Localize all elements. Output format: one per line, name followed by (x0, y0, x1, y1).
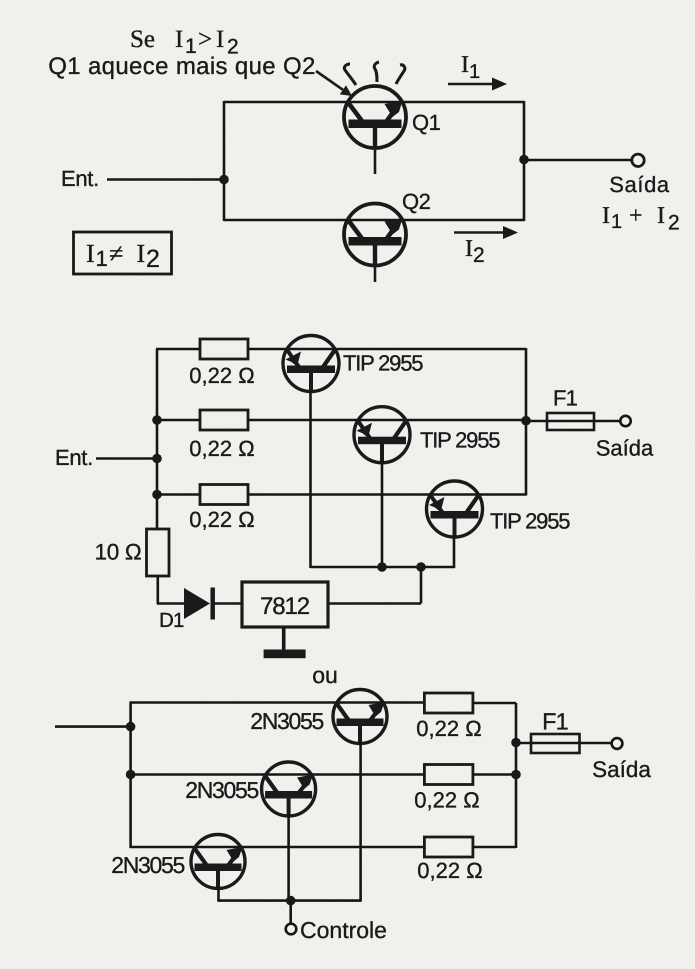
svg-text:0,22 Ω: 0,22 Ω (189, 436, 254, 461)
wire: to fuse (526, 420, 620, 423)
wire: TIP2 base lead down (381, 461, 384, 567)
wire: left bus vertical (156, 349, 159, 529)
svg-text:Q1 aquece mais que Q2: Q1 aquece mais que Q2 (48, 53, 316, 80)
wire: left side of loop (223, 101, 226, 221)
svg-text:TIP 2955: TIP 2955 (420, 428, 500, 453)
svg-text:TIP 2955: TIP 2955 (490, 509, 570, 534)
wire: row3 left (157, 493, 200, 496)
transistor 2N3055 #2 (262, 762, 316, 816)
wire: row2 left (157, 419, 200, 422)
junction: fuse tap (511, 738, 521, 748)
resistor R1 0,22 (200, 339, 248, 359)
svg-text:10 Ω: 10 Ω (95, 540, 142, 565)
current arrow I1 (448, 83, 495, 86)
wire: resistor to diode (157, 576, 160, 604)
svg-text:2N3055: 2N3055 (111, 852, 184, 878)
wire: row2 right (473, 773, 516, 776)
resistor R3 0,22 (200, 485, 248, 505)
svg-text:TIP 2955: TIP 2955 (343, 351, 423, 376)
transistor TIP 2955 #1 (283, 336, 339, 392)
wire: bottom side of loop (224, 219, 524, 222)
wire: row1 left (156, 348, 200, 351)
wire: row3 right (248, 493, 526, 496)
wire: Q2 emitter lead (374, 262, 377, 282)
junction: TIP2 base (377, 562, 387, 572)
svg-text:Saída: Saída (592, 757, 651, 782)
svg-text:D1: D1 (159, 609, 184, 632)
wire: input stub (96, 457, 157, 460)
transistor TIP 2955 #3 (427, 481, 483, 537)
wire: T1 base lead (359, 742, 362, 902)
pointer arrow from label to Q1 (316, 71, 343, 90)
wire: row1 right (248, 348, 526, 351)
ground (264, 650, 306, 659)
wire: left bus vertical (129, 703, 132, 849)
resistor R2 0,22 (200, 410, 248, 430)
junction: bus row3 (152, 490, 162, 500)
wire: Q1 emitter lead (374, 145, 377, 174)
svg-text:7812: 7812 (260, 593, 310, 620)
wire: diode to regulator (214, 602, 242, 605)
wire: row2 right (248, 419, 526, 422)
svg-text:Ent.: Ent. (61, 166, 99, 191)
wire: right collector vertical (525, 348, 528, 496)
junction: row2 tap (511, 770, 521, 780)
wire: regulator ground lead (282, 627, 286, 650)
junction: regulator tap (416, 562, 426, 572)
svg-text:0,22 Ω: 0,22 Ω (414, 788, 479, 813)
terminal: Saida output (632, 154, 644, 166)
wire: top side of loop (224, 101, 524, 104)
transistor Q1 (344, 86, 406, 148)
wire: to fuse (516, 742, 612, 745)
box: I1 != I2 (74, 232, 172, 274)
wire: controle drop (289, 901, 292, 924)
wire: TIP3 base lead down (453, 535, 456, 568)
wire: row3 right (473, 846, 516, 849)
wire: right vertical (515, 703, 518, 848)
terminal: Saida (620, 416, 630, 426)
terminal: Controle (286, 924, 297, 935)
svg-text:Q1: Q1 (412, 110, 441, 135)
wire: to output terminal (524, 159, 632, 162)
svg-text:Q2: Q2 (402, 189, 431, 214)
wire: T2 base lead (287, 814, 290, 902)
svg-text:0,22 Ω: 0,22 Ω (189, 507, 254, 532)
wire: right side of loop (523, 101, 526, 221)
wire: regulator to junction (420, 567, 423, 604)
svg-text:Ent.: Ent. (55, 445, 93, 470)
regulator U1 7812 (242, 582, 328, 627)
junction: input node (219, 175, 229, 185)
wire: row1 (130, 701, 425, 704)
resistor R6 0,22 (424, 765, 473, 785)
junction: bus row2 (126, 770, 136, 780)
fuse F1 (531, 734, 580, 753)
svg-text:0,22 Ω: 0,22 Ω (417, 858, 482, 883)
resistor R7 0,22 (424, 837, 473, 857)
resistor R5 0,22 (424, 693, 473, 713)
wire: row3 (130, 846, 425, 849)
heat rays above Q1 (344, 64, 356, 85)
wire: base junction row (219, 899, 361, 902)
diode D1 (184, 588, 210, 619)
wire: input stub (55, 725, 131, 728)
svg-text:Saída: Saída (596, 436, 654, 461)
junction: bus input (152, 454, 162, 464)
current arrow I2 (454, 231, 506, 234)
wire: TIP1 base lead down (309, 390, 312, 568)
resistor R4 10 ohm vertical (147, 529, 170, 576)
svg-text:2N3055: 2N3055 (250, 708, 323, 734)
terminal: Saida (612, 738, 623, 749)
transistor 2N3055 #3 (191, 835, 245, 889)
fuse F1 (547, 413, 594, 430)
junction: bus input (126, 722, 136, 732)
svg-text:ou: ou (312, 662, 338, 688)
wire: row2 (131, 773, 425, 776)
svg-text:F1: F1 (542, 709, 568, 735)
svg-text:Saída: Saída (609, 172, 670, 197)
svg-text:0,22 Ω: 0,22 Ω (416, 716, 481, 741)
svg-text:0,22 Ω: 0,22 Ω (189, 363, 254, 388)
transistor 2N3055 #1 (333, 690, 387, 744)
svg-text:Controle: Controle (300, 917, 387, 943)
transistor Q2 (344, 204, 406, 266)
svg-text:2N3055: 2N3055 (185, 777, 258, 803)
junction: controle node (286, 896, 296, 906)
junction: output node (519, 155, 529, 165)
junction: output node (521, 416, 531, 426)
wire: row1 right (473, 702, 516, 705)
wire: base junction row (311, 566, 456, 569)
svg-text:F1: F1 (553, 386, 578, 411)
wire: input to node (107, 178, 224, 181)
junction: bus row2 (152, 415, 162, 425)
transistor TIP 2955 #2 (354, 407, 410, 463)
wire: T3 base lead (217, 886, 220, 902)
